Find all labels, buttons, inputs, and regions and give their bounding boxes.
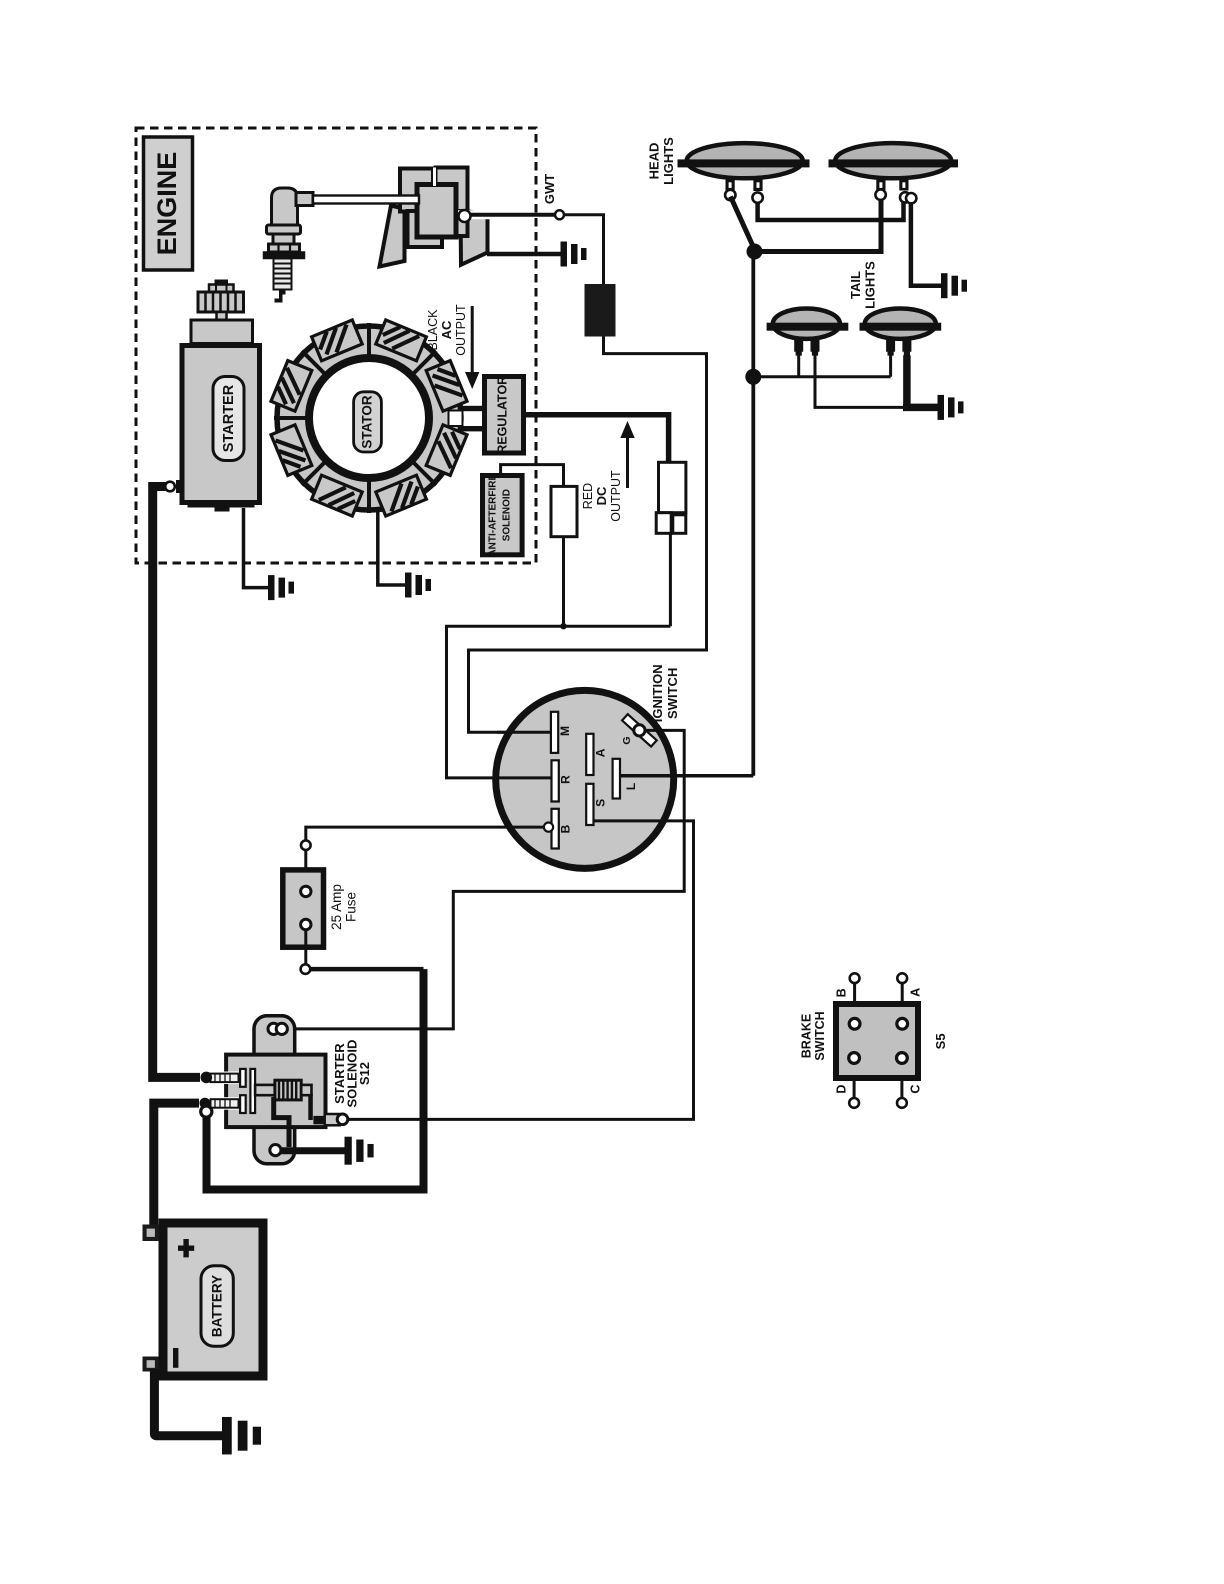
- svg-text:ENGINE: ENGINE: [152, 152, 182, 256]
- svg-text:S: S: [594, 799, 608, 807]
- terminal S: [586, 784, 593, 825]
- black connector block: [585, 284, 616, 337]
- fuse bottom terminal: [301, 964, 311, 974]
- stud plates: [240, 1069, 246, 1087]
- solenoid ground wire: [281, 1147, 345, 1154]
- svg-text:BRAKE: BRAKE: [800, 1014, 814, 1058]
- starter motor M1: [165, 280, 259, 512]
- battery BT1: [143, 1223, 264, 1376]
- boot collar: [267, 225, 301, 234]
- wire key G to solenoid bracket: [288, 730, 684, 1029]
- internal link to mount: [274, 1097, 289, 1147]
- STATOR label pill: [354, 392, 382, 452]
- stator pole shoe 7: [376, 475, 427, 516]
- svg-text:M: M: [558, 726, 572, 736]
- svg-text:STARTER: STARTER: [221, 384, 237, 452]
- stator pole shoe 5: [271, 425, 312, 476]
- ground (starter): [268, 575, 294, 600]
- stator pole shoe 6: [312, 475, 363, 516]
- svg-text:STATOR: STATOR: [360, 395, 375, 448]
- stator pole shoe 8: [426, 425, 467, 476]
- module ground wire: [487, 252, 561, 257]
- stator pole shoe 2: [376, 320, 427, 361]
- key symbol: [622, 714, 657, 746]
- junction dot headlight feed: [747, 244, 763, 260]
- stator ring dividers: [274, 323, 436, 513]
- ground (module): [561, 242, 587, 267]
- svg-text:DC: DC: [594, 486, 609, 505]
- fuse top lead: [304, 850, 307, 886]
- GWT wire from module: [458, 210, 492, 219]
- tail lamp right: [860, 309, 942, 356]
- tail feed wires: [753, 355, 890, 376]
- starter solenoid S12: [200, 1016, 374, 1165]
- connector plug 2 wire: [669, 533, 672, 626]
- svg-text:R: R: [559, 775, 573, 784]
- cable lug caps: [201, 1072, 213, 1084]
- pinion gear main: [198, 292, 244, 312]
- svg-text:Fuse: Fuse: [344, 892, 359, 922]
- plug wire: [313, 196, 419, 204]
- junction dot tail feed: [745, 369, 761, 385]
- wire B to fuse: [306, 827, 548, 840]
- solenoid body: [226, 1055, 325, 1128]
- svg-text:HEAD: HEAD: [647, 143, 662, 180]
- wire L to lighting feed: [620, 774, 753, 778]
- tail ground thin wire: [815, 355, 903, 407]
- svg-text:REGULATOR: REGULATOR: [496, 376, 510, 454]
- wire to R (inside switch): [496, 776, 551, 779]
- ground (tail lights): [938, 395, 964, 420]
- plug flange: [264, 252, 305, 259]
- fuse output wire: [310, 967, 423, 972]
- connector plug 1 wire: [562, 537, 565, 627]
- starter ground wire: [244, 508, 269, 588]
- stator pole shoe 3: [312, 320, 363, 361]
- module top-right block: [436, 168, 468, 236]
- tail ground thick wire: [903, 355, 938, 407]
- svg-text:B: B: [559, 824, 573, 833]
- anti-afterfire wire to connector: [501, 465, 564, 487]
- battery negative cable: [154, 1369, 223, 1436]
- headlight ground wire: [911, 202, 941, 285]
- terminal R: [552, 760, 559, 801]
- brake switch body: [836, 1004, 918, 1078]
- svg-text:S12: S12: [357, 1062, 372, 1085]
- stator assembly: [271, 320, 483, 516]
- stator ring: [277, 326, 461, 510]
- svg-text:SWITCH: SWITCH: [665, 668, 680, 719]
- fuse contacts: [301, 886, 311, 896]
- regulator: [485, 376, 524, 454]
- plunger terminal: [313, 1116, 324, 1124]
- svg-text:RED: RED: [581, 483, 595, 509]
- svg-text:IGNITION: IGNITION: [650, 664, 665, 722]
- RED DC OUTPUT label: [581, 421, 635, 522]
- svg-text:SOLENOID: SOLENOID: [502, 489, 513, 541]
- ignition switch body: [496, 690, 674, 868]
- coil core bar: [255, 1085, 276, 1095]
- wire connector to M terminal: [469, 337, 707, 733]
- module terminal circle: [459, 210, 471, 222]
- thick loop wire fuse to solenoid stud: [207, 969, 424, 1189]
- svg-text:B: B: [835, 988, 849, 997]
- thick cable starter to solenoid: [153, 487, 200, 1078]
- ground (solenoid): [345, 1137, 374, 1165]
- fuse top terminal: [301, 840, 311, 850]
- svg-text:OUTPUT: OUTPUT: [454, 304, 468, 356]
- fuse body: [283, 870, 324, 947]
- svg-text:BATTERY: BATTERY: [210, 1275, 225, 1337]
- wire GWT to connector: [564, 215, 604, 284]
- wire S to solenoid coil: [349, 821, 694, 1120]
- svg-text:A: A: [909, 988, 923, 997]
- starter top cap: [191, 320, 253, 344]
- external terminals: [850, 973, 860, 983]
- fuse wire ring terminal on stud: [201, 1106, 212, 1117]
- regulator DC output wire: [526, 415, 669, 463]
- plug threads: [273, 259, 293, 290]
- ground (battery): [222, 1417, 261, 1455]
- plus mark: [178, 1239, 194, 1257]
- svg-text:S5: S5: [933, 1033, 948, 1049]
- ignition module U1: [380, 168, 488, 267]
- head lamp right: [829, 143, 959, 203]
- stator pole shoe 4: [271, 361, 312, 412]
- stator output notch: [449, 411, 463, 427]
- connector plug 2: [656, 462, 686, 533]
- terminal M: [551, 712, 558, 753]
- plug neck: [273, 234, 294, 244]
- spark plug P1: [264, 188, 314, 303]
- ground (head lights): [941, 273, 967, 298]
- stator ground wire: [378, 508, 405, 585]
- terminal B: [552, 809, 559, 849]
- battery positive cable: [154, 1103, 199, 1226]
- svg-text:BLACK: BLACK: [426, 309, 440, 351]
- connector plug 1: [551, 486, 577, 536]
- tail lamp left: [767, 309, 849, 356]
- plug electrode: [275, 290, 286, 303]
- BLACK AC OUTPUT label: [426, 304, 479, 389]
- pinion gear top knob: [215, 280, 229, 286]
- GWT terminal: [555, 210, 564, 219]
- module lower body: [408, 211, 468, 247]
- module core rectangle: [417, 185, 456, 238]
- terminal A: [586, 734, 593, 775]
- stator AC output stubs: [459, 406, 483, 411]
- headlight crossover wire: [755, 199, 882, 252]
- module top slit: [433, 168, 436, 187]
- coil core right: [301, 1085, 311, 1095]
- plug hex nut: [269, 244, 300, 252]
- main lighting feed wire: [751, 252, 755, 776]
- svg-text:OUTPUT: OUTPUT: [609, 470, 623, 522]
- module left fin: [380, 206, 405, 267]
- ground (stator): [405, 573, 431, 598]
- B terminal ring: [544, 823, 553, 832]
- terminal L: [613, 759, 620, 799]
- DC output arrow: [626, 437, 629, 488]
- pinion gear upper: [209, 285, 234, 293]
- svg-text:D: D: [835, 1085, 849, 1094]
- starter bottom plate: [188, 502, 255, 508]
- svg-text:L: L: [624, 783, 638, 790]
- anti-afterfire solenoid: [483, 473, 523, 556]
- solenoid mounting bracket: [254, 1016, 295, 1164]
- STARTER label pill: [213, 377, 244, 461]
- internal contacts: [849, 1018, 860, 1029]
- svg-text:TAIL: TAIL: [848, 271, 863, 299]
- stud shafts: [211, 1074, 239, 1108]
- module top-left block: [400, 169, 433, 212]
- stator inner bore: [309, 358, 429, 478]
- wire to R terminal: [447, 626, 671, 778]
- link core to plunger: [308, 1094, 313, 1120]
- fuse bottom lead: [304, 930, 307, 965]
- svg-text:G: G: [621, 736, 633, 744]
- svg-text:SWITCH: SWITCH: [813, 1011, 827, 1060]
- svg-text:LIGHTS: LIGHTS: [863, 261, 878, 309]
- svg-text:ANTI-AFTERFIRE: ANTI-AFTERFIRE: [488, 473, 499, 556]
- svg-text:C: C: [909, 1085, 923, 1094]
- module right fin: [461, 210, 488, 265]
- headlight feed diagonal wire: [731, 197, 755, 250]
- svg-text:A: A: [594, 748, 608, 757]
- starter body: [182, 346, 260, 503]
- stator pole shoe 1: [426, 361, 467, 412]
- engine dashed boundary box: [136, 128, 536, 563]
- wire to M (inside switch): [497, 731, 550, 734]
- starter shaft: [217, 312, 227, 320]
- bracket grommet: [268, 1023, 279, 1034]
- coil spring: [275, 1080, 301, 1100]
- brake switch S5: [800, 973, 949, 1108]
- minus mark: [173, 1348, 178, 1368]
- BATTERY label pill: [201, 1266, 233, 1346]
- AC output arrow: [471, 306, 474, 373]
- svg-text:25 Amp: 25 Amp: [329, 884, 344, 930]
- svg-text:GWT: GWT: [542, 174, 557, 204]
- bracket lower hole: [270, 1145, 281, 1156]
- brake switch leads: [854, 983, 902, 1098]
- junction: [560, 623, 566, 629]
- plug boot: [272, 188, 298, 225]
- stud channels: [220, 1072, 240, 1085]
- starter terminal stud: [176, 480, 182, 493]
- svg-text:LIGHTS: LIGHTS: [661, 137, 676, 185]
- head lamp left: [678, 143, 810, 203]
- battery terminal posts: [143, 1225, 160, 1372]
- ENGINE label: [144, 137, 193, 270]
- headlight pair wire: [758, 202, 904, 220]
- svg-text:AC: AC: [439, 320, 454, 339]
